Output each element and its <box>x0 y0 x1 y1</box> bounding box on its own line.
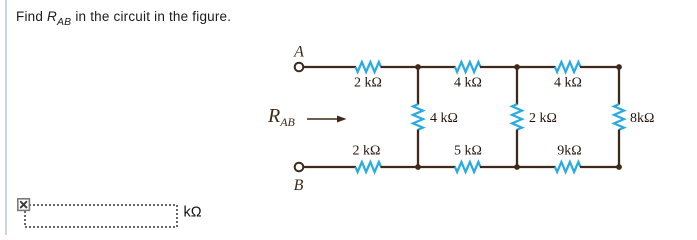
answer input dotted box <box>25 205 177 227</box>
svg-text:9kΩ: 9kΩ <box>557 144 581 159</box>
node B terminal circle <box>295 163 304 172</box>
wire vertical 1 upper <box>417 66 419 105</box>
svg-text:5 kΩ: 5 kΩ <box>454 144 482 159</box>
junction dot bottom-1 <box>415 164 421 170</box>
wire top segment 1 <box>303 66 356 68</box>
wire vertical 2 lower <box>516 130 518 169</box>
junction dot top-2 <box>514 64 520 70</box>
arrow for R_AB <box>307 118 338 120</box>
svg-text:kΩ: kΩ <box>184 205 202 221</box>
svg-text:B: B <box>294 177 304 194</box>
resistor 2 kOhm top-left zigzag <box>356 62 382 72</box>
svg-text:8kΩ: 8kΩ <box>630 111 654 126</box>
wire bottom segment 3 <box>480 166 556 168</box>
svg-text:2 kΩ: 2 kΩ <box>354 76 382 91</box>
junction dot top-1 <box>415 64 421 70</box>
svg-text:A: A <box>293 44 304 61</box>
resistor 4 kOhm vertical-left zigzag <box>413 104 423 130</box>
wire vertical right lower <box>618 130 620 169</box>
svg-text:4 kΩ: 4 kΩ <box>454 76 482 91</box>
resistor 2 kOhm bottom-left zigzag <box>356 162 382 172</box>
answer x-button square <box>18 199 30 211</box>
svg-text:RAB: RAB <box>267 105 296 129</box>
resistor 4 kOhm top-right zigzag <box>555 62 581 72</box>
resistor 5 kOhm bottom-middle zigzag <box>455 162 481 172</box>
svg-text:4 kΩ: 4 kΩ <box>430 111 458 126</box>
wire vertical 2 upper <box>516 66 518 105</box>
resistor 9 kOhm bottom-right zigzag <box>555 162 581 172</box>
wire bottom segment 1 <box>303 166 356 168</box>
resistor 4 kOhm top-middle zigzag <box>455 62 481 72</box>
wire vertical 1 lower <box>417 130 419 169</box>
resistor 8 kOhm vertical-right zigzag <box>614 104 624 130</box>
answer x-button glyph <box>21 202 27 208</box>
junction dot bottom-2 <box>514 164 520 170</box>
svg-text:2 kΩ: 2 kΩ <box>353 144 381 159</box>
node A terminal circle <box>295 63 304 72</box>
junction dot top-right corner <box>616 64 622 70</box>
wire vertical right upper <box>618 66 620 105</box>
svg-text:4 kΩ: 4 kΩ <box>554 76 582 91</box>
title text <box>16 9 231 24</box>
wire bottom segment 4 <box>580 166 620 168</box>
wire bottom segment 2 <box>381 166 456 168</box>
junction dot bottom-right corner <box>616 164 622 170</box>
wire top segment 2 <box>381 66 456 68</box>
wire top segment 4 <box>580 66 620 68</box>
resistor 2 kOhm vertical-middle zigzag <box>512 104 522 130</box>
wire top segment 3 <box>480 66 556 68</box>
left vertical rule <box>5 0 7 235</box>
svg-text:2 kΩ: 2 kΩ <box>529 111 557 126</box>
